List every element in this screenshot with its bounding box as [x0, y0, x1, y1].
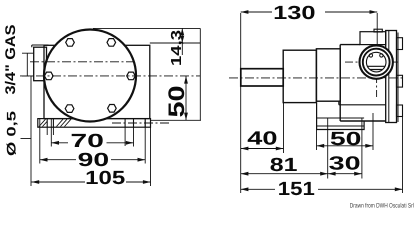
130 right extension — [376, 13, 378, 45]
centerline port (dash-dot) — [30, 61, 133, 63]
svg-text:105: 105 — [85, 168, 126, 189]
svg-text:50: 50 — [164, 86, 189, 118]
dim line 40 — [241, 148, 284, 150]
left long extension line right view — [240, 13, 242, 193]
top tab — [374, 29, 382, 32]
hex bolt BL — [65, 105, 74, 113]
port vertical centerline — [376, 45, 378, 97]
extension top tangent line y=28.4 — [93, 27, 200, 29]
body flange rectangle behind circle — [44, 45, 150, 118]
bottom tick line y=120.3 — [151, 119, 202, 121]
tab right middle — [397, 75, 403, 87]
port top lip — [32, 45, 49, 47]
port boss outer circle — [360, 45, 393, 78]
hex bolt ML — [44, 72, 53, 80]
extension verticals right view bottom — [284, 103, 403, 193]
pump head body — [340, 45, 386, 121]
plate right slot lines — [125, 119, 145, 128]
port middle circle — [363, 49, 390, 76]
arrows 151 — [241, 187, 249, 191]
hex bolt MR — [127, 72, 136, 80]
tab right top — [397, 38, 403, 50]
boss on head top — [360, 32, 386, 45]
hex bolt TR — [107, 39, 116, 47]
arrows 40 — [241, 147, 249, 151]
svg-text:50: 50 — [330, 129, 362, 150]
dim line 81 — [241, 173, 328, 175]
plate hatch left foot — [39, 119, 71, 126]
svg-text:151: 151 — [278, 179, 316, 200]
arrows 130 — [241, 10, 249, 14]
svg-text:30: 30 — [329, 154, 361, 175]
dim line 50 — [317, 145, 374, 147]
svg-text:Drawn from DWH Osculati Srl: Drawn from DWH Osculati Srl — [350, 202, 414, 209]
centerline main horizontal left view — [20, 75, 200, 77]
arrows 50 right view — [317, 144, 325, 148]
dim line 105 — [32, 181, 151, 183]
end plate inner line — [389, 31, 398, 123]
dim line 70 — [51, 142, 133, 144]
block1 bearing housing — [283, 50, 316, 102]
end plate — [386, 31, 397, 123]
arrows 105 — [32, 180, 40, 184]
port 3/4 GAS stub — [34, 47, 47, 80]
svg-text:Ø 0,5: Ø 0,5 — [5, 111, 19, 156]
outer vertical line right — [199, 28, 201, 120]
centerline plate slots — [112, 122, 170, 124]
shaft — [241, 69, 283, 86]
arrows 50 vertical left view — [184, 76, 188, 84]
step under block2 — [339, 101, 386, 105]
extension line y=42.7 right — [150, 42, 201, 44]
dim line 151 — [241, 188, 403, 190]
dim line 14,3 — [181, 28, 183, 55]
bottom flange foot — [317, 103, 365, 130]
svg-text:14,3: 14,3 — [169, 30, 185, 66]
hex bolt TL — [66, 39, 75, 47]
plug top details — [369, 54, 372, 57]
plug slot lines — [367, 66, 385, 69]
tab right bottom — [397, 105, 403, 117]
port horizontal centerline — [345, 61, 399, 63]
svg-text:3/4" GAS: 3/4" GAS — [2, 25, 18, 95]
leader bracket for 3/4 GAS — [22, 53, 34, 76]
plate left slot lines — [47, 119, 53, 128]
bottom extension verticals left view — [40, 119, 151, 186]
svg-text:81: 81 — [270, 155, 298, 176]
port inner circle — [366, 52, 386, 72]
arrows 81 — [241, 172, 249, 176]
hex bolt BR — [108, 105, 117, 113]
long extension line left (105 / Ø0,5) — [30, 76, 32, 186]
main cover circle — [44, 30, 136, 122]
leader Ø 0,5 — [21, 138, 32, 140]
dim line 130 — [241, 11, 378, 13]
dim line 30 — [328, 173, 362, 175]
svg-text:40: 40 — [247, 129, 277, 150]
svg-text:130: 130 — [273, 3, 315, 24]
arrows 14,3 — [180, 28, 184, 35]
dim line 90 — [40, 159, 145, 161]
flange inner lines — [317, 118, 365, 126]
arrows 90 — [40, 158, 48, 162]
arrows 70 — [51, 141, 59, 145]
main shaft centerline — [229, 77, 403, 79]
base plate — [38, 119, 151, 128]
dim line 50 vertical — [185, 76, 187, 120]
arrows 30 — [328, 172, 336, 176]
block2 — [316, 49, 340, 101]
